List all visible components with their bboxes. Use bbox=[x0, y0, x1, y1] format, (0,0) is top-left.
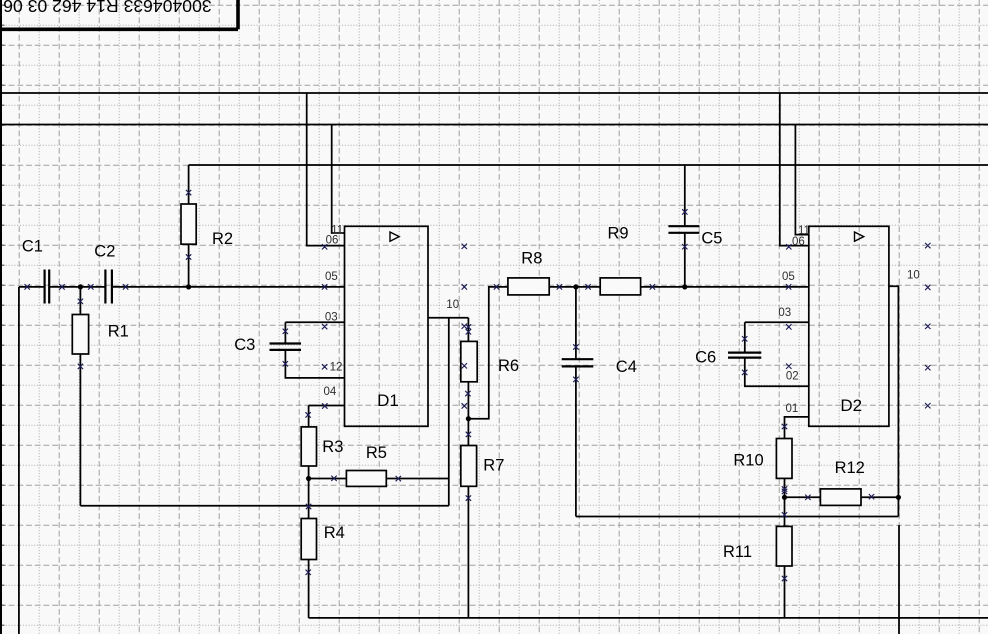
svg-text:R10: R10 bbox=[733, 452, 763, 470]
svg-text:C5: C5 bbox=[701, 229, 722, 247]
svg-text:C1: C1 bbox=[22, 238, 43, 256]
svg-text:R12: R12 bbox=[835, 459, 865, 477]
svg-text:R3: R3 bbox=[322, 438, 343, 456]
svg-text:R4: R4 bbox=[324, 524, 345, 542]
svg-text:02: 02 bbox=[786, 370, 799, 382]
svg-text:C4: C4 bbox=[616, 358, 637, 376]
svg-text:R2: R2 bbox=[212, 230, 233, 248]
svg-text:R8: R8 bbox=[521, 249, 542, 267]
svg-text:03: 03 bbox=[778, 307, 791, 319]
svg-text:D1: D1 bbox=[377, 391, 399, 410]
svg-text:R5: R5 bbox=[366, 444, 387, 462]
svg-text:06: 06 bbox=[326, 235, 339, 247]
svg-text:12: 12 bbox=[330, 362, 343, 374]
svg-text:C6: C6 bbox=[695, 348, 716, 366]
svg-text:D2: D2 bbox=[840, 396, 862, 415]
svg-text:05: 05 bbox=[325, 271, 338, 283]
svg-text:01: 01 bbox=[786, 403, 799, 415]
svg-text:03: 03 bbox=[325, 312, 338, 324]
svg-text:06: 06 bbox=[792, 236, 805, 248]
svg-text:R9: R9 bbox=[608, 225, 629, 243]
svg-text:R7: R7 bbox=[483, 456, 504, 474]
svg-text:R1: R1 bbox=[108, 323, 129, 341]
svg-text:04: 04 bbox=[324, 386, 337, 398]
svg-text:05: 05 bbox=[782, 271, 795, 283]
svg-text:C3: C3 bbox=[234, 336, 255, 354]
svg-text:R11: R11 bbox=[723, 543, 752, 561]
svg-text:10: 10 bbox=[446, 299, 459, 311]
svg-text:R6: R6 bbox=[498, 357, 519, 375]
svg-text:10: 10 bbox=[907, 270, 920, 282]
svg-text:300404633 R14 462 03 06: 300404633 R14 462 03 06 bbox=[3, 0, 212, 16]
svg-text:C2: C2 bbox=[94, 243, 115, 261]
